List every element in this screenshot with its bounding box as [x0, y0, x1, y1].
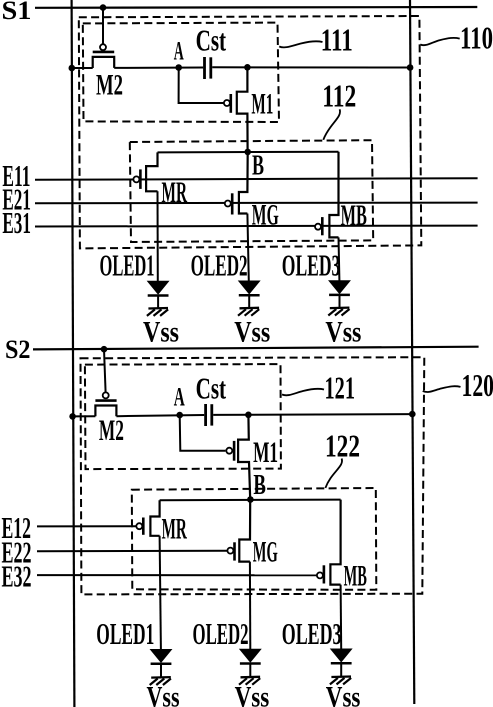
ground Vss (OLED3 row 2): [330, 677, 351, 685]
wire E31 row line: [35, 225, 478, 228]
ground Vss label (OLED3): [325, 315, 361, 348]
junction Cst / M1 drain: [244, 64, 251, 71]
svg-text:121: 121: [325, 370, 356, 406]
ground Vss label (OLED2 row 2): [235, 681, 270, 707]
ground Vss label (OLED3 row 2): [326, 681, 361, 707]
svg-text:M2: M2: [96, 69, 123, 102]
node B label (row 2): [253, 469, 266, 501]
transistor M2: [93, 44, 123, 101]
ground Vss label (OLED1 row 2): [147, 681, 180, 707]
diode OLED3 (row 2): [331, 649, 352, 676]
net S1 label: [2, 0, 32, 25]
junction S2 gate tap: [101, 346, 108, 353]
svg-text:Vss: Vss: [147, 681, 180, 707]
svg-text:S2: S2: [5, 335, 31, 364]
wire E12 row line: [37, 525, 136, 527]
diode OLED2: [239, 281, 260, 308]
wire row 2: Cst right plate to right bus: [213, 413, 412, 416]
transistor MR: [133, 152, 187, 208]
wire M1 gate lead (node A): [179, 68, 225, 104]
svg-text:Vss: Vss: [234, 315, 270, 348]
net E12 label: [2, 510, 32, 545]
block 121 boundary (dashed): [85, 364, 281, 469]
wire MR source to OLED1: [157, 191, 159, 281]
block 111 label: [321, 22, 353, 58]
wire left data bus: [72, 0, 75, 707]
svg-text:Vss: Vss: [326, 681, 361, 707]
wire M1 gate lead (node A row 2): [180, 415, 226, 451]
wire row: bus to Cst left plate: [72, 67, 203, 70]
block 112 boundary (dashed): [130, 140, 373, 242]
block 121 leader: [282, 389, 324, 396]
svg-text:MR: MR: [162, 513, 187, 546]
svg-text:Vss: Vss: [143, 315, 179, 348]
block 110 leader: [420, 38, 459, 45]
net E31 label: [2, 205, 31, 240]
block 120 leader: [423, 386, 461, 392]
svg-text:E32: E32: [2, 559, 32, 594]
svg-text:B: B: [253, 469, 266, 501]
wire S1 scan line: [35, 6, 477, 9]
svg-text:OLED3: OLED3: [282, 248, 341, 283]
svg-text:MG: MG: [252, 198, 279, 231]
wire row: Cst right plate to right bus: [212, 66, 410, 68]
svg-text:M2: M2: [99, 414, 124, 447]
wire MG source to OLED2: [247, 214, 248, 282]
svg-text:122: 122: [325, 427, 360, 463]
transistor MG: [225, 152, 279, 231]
net E21 label: [2, 181, 31, 216]
ground Vss (OLED3): [328, 308, 349, 316]
transistor MB (row 2): [317, 500, 367, 593]
svg-text:MB: MB: [341, 199, 367, 232]
net E11 label: [2, 158, 30, 193]
svg-text:Cst: Cst: [196, 370, 227, 405]
svg-text:Cst: Cst: [196, 22, 227, 57]
block 112 leader: [323, 109, 340, 140]
junction left bus / row wire: [69, 65, 76, 72]
diode OLED2 (row 2): [240, 649, 261, 676]
diode OLED2 label: [191, 248, 248, 283]
svg-text:MG: MG: [253, 536, 278, 569]
wire node B rail (row 2): [160, 499, 341, 502]
ground Vss (OLED1): [147, 308, 168, 316]
svg-text:M1: M1: [253, 436, 278, 469]
diode OLED1 label: [100, 248, 155, 283]
ground Vss (OLED1 row 2): [150, 677, 171, 685]
wire MB source to OLED3 (row 2): [340, 585, 343, 649]
svg-text:E31: E31: [2, 205, 31, 240]
svg-text:Vss: Vss: [235, 681, 270, 707]
capacitor Cst: [196, 22, 227, 79]
diode OLED2 label (row 2): [193, 616, 249, 651]
svg-text:111: 111: [321, 22, 353, 58]
net E32 label: [2, 559, 32, 594]
svg-text:Vss: Vss: [325, 315, 361, 348]
block 122 boundary (dashed): [132, 488, 376, 590]
diode OLED1 label (row 2): [96, 616, 154, 651]
svg-text:A: A: [174, 37, 184, 66]
wire E11 row line: [35, 178, 478, 180]
transistor MB: [315, 152, 367, 238]
ground Vss (OLED2 row 2): [239, 677, 260, 685]
diode OLED3: [329, 281, 350, 308]
node A label: [174, 37, 184, 66]
block 110 label: [460, 20, 493, 56]
diode OLED3 label: [282, 248, 341, 283]
block 120 boundary (dashed): [81, 357, 425, 594]
transistor MG (row 2): [227, 500, 277, 569]
node B: [244, 149, 251, 156]
net S2 label: [5, 335, 31, 364]
node A label (row 2): [174, 383, 185, 412]
svg-text:OLED1: OLED1: [96, 616, 154, 651]
junction right bus / row wire: [407, 64, 414, 71]
svg-text:OLED2: OLED2: [191, 248, 248, 283]
node B label: [252, 150, 264, 182]
wire M2 gate lead (S1): [102, 8, 104, 45]
svg-text:110: 110: [460, 20, 493, 56]
svg-text:S1: S1: [2, 0, 32, 25]
wire row 2: bus to Cst left plate: [73, 415, 205, 416]
wire right data bus: [410, 0, 414, 704]
wire MG source to OLED2 (row 2): [249, 562, 251, 650]
block 111 leader: [279, 41, 322, 47]
svg-text:OLED3: OLED3: [282, 616, 342, 651]
svg-text:M1: M1: [251, 88, 273, 121]
junction S1 gate tap: [100, 4, 107, 11]
svg-text:OLED2: OLED2: [193, 616, 249, 651]
block 120 label: [462, 367, 493, 403]
node A: [175, 64, 182, 71]
wire S2 scan line: [33, 347, 479, 350]
wire E22 row line: [37, 550, 227, 553]
junction right bus / row wire (row 2): [409, 411, 416, 418]
svg-text:MB: MB: [344, 560, 367, 593]
transistor M2 (row 2): [95, 392, 124, 447]
wire E32 row line: [37, 574, 317, 576]
block 112 label: [322, 77, 356, 113]
ground Vss label (OLED2): [234, 315, 270, 348]
block 121 label: [325, 370, 356, 406]
wire node B rail: [158, 151, 339, 154]
capacitor Cst (row 2): [196, 370, 227, 426]
transistor M1 (row 2): [226, 415, 278, 500]
block 122 label: [325, 427, 360, 463]
diode OLED1: [148, 281, 169, 308]
transistor M1: [224, 67, 274, 152]
wire E21 row line: [35, 202, 478, 205]
net E22 label: [2, 534, 32, 569]
ground Vss label (OLED1): [143, 315, 179, 348]
node B (row 2): [247, 496, 254, 503]
svg-text:112: 112: [322, 77, 356, 113]
svg-text:B: B: [252, 150, 264, 182]
node A (row 2): [176, 412, 183, 419]
svg-text:OLED1: OLED1: [100, 248, 155, 283]
junction Cst / M1 drain (row 2): [245, 412, 252, 419]
block 122 leader: [325, 459, 342, 488]
wire MB source to OLED3: [338, 237, 341, 280]
diode OLED1 (row 2): [151, 650, 172, 677]
ground Vss (OLED2): [238, 308, 259, 316]
transistor MR (row 2): [136, 500, 187, 545]
wire M2 gate lead (S2): [104, 349, 106, 392]
svg-text:120: 120: [462, 367, 493, 403]
svg-text:A: A: [174, 383, 185, 412]
block 111 boundary (dashed): [83, 23, 279, 122]
svg-text:MR: MR: [162, 176, 188, 209]
block 110 boundary (dashed): [79, 16, 422, 248]
wire MR source to OLED1 (row 2): [160, 536, 161, 650]
junction left bus / row wire (row 2): [69, 413, 76, 420]
diode OLED3 label (row 2): [282, 616, 342, 651]
